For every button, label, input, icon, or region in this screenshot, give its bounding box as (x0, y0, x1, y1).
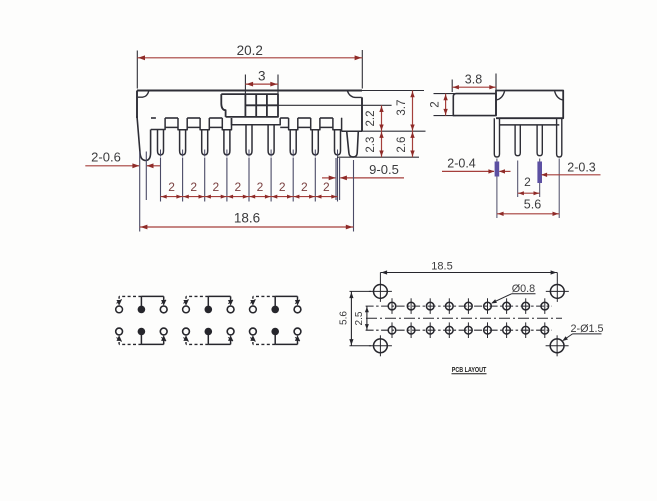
switch group 3 bottom right contact (294, 328, 301, 335)
svg-text:5.6: 5.6 (338, 311, 349, 325)
central block under slider (232, 118, 281, 125)
dimension 2-0.6 extension lines (140, 152, 147, 232)
dimension 5.6 pcb extensions (350, 291, 372, 345)
svg-text:2-0.6: 2-0.6 (91, 150, 121, 165)
dimension 9-0.5 extension lines (336, 158, 340, 200)
switch group 3 bottom wire dashed (250, 335, 275, 344)
svg-text:9-0.5: 9-0.5 (369, 162, 399, 177)
side pin 1 extension (496, 159, 498, 219)
front view top-left corner notch (138, 91, 149, 97)
svg-text:18.6: 18.6 (234, 211, 260, 226)
dimension 2-0.6 (85, 150, 160, 169)
svg-text:3.7: 3.7 (396, 100, 408, 116)
switch group 3 top right contact (294, 306, 301, 313)
pcb row line top (366, 305, 552, 307)
pin 5 (246, 125, 252, 157)
dimension 2 knob extension lines (434, 94, 457, 116)
side pin 4 extension (558, 159, 560, 219)
pin 6 (268, 125, 274, 157)
pcb pad hole bottom 5 (465, 322, 473, 338)
dimension 18.6 (140, 211, 354, 230)
dimension 5.6 side (497, 197, 559, 216)
svg-text:2: 2 (430, 101, 442, 107)
dimension 18.6 extension line right (353, 160, 355, 232)
dimension 5.6 pcb (338, 291, 353, 345)
pcb pad hole bottom 3 (426, 322, 434, 338)
pin centerline extensions (161, 158, 338, 202)
dimension 2 knob (430, 94, 448, 116)
switch group 3 bottom common dot (271, 328, 279, 336)
svg-text:2: 2 (235, 180, 242, 194)
right reference line mid (342, 130, 426, 132)
svg-text:2.3: 2.3 (365, 137, 377, 153)
dimension 2.5 pcb (354, 306, 369, 330)
switch group 3 top wire dashed (250, 296, 275, 305)
svg-text:2-Ø1.5: 2-Ø1.5 (570, 323, 603, 335)
side body corner arc left (497, 91, 505, 100)
dimension 3.7 (396, 91, 415, 132)
switch group 1 top right contact (160, 306, 167, 313)
front view top-right corner notch (347, 91, 361, 97)
pin 8 (312, 130, 318, 157)
svg-text:3.8: 3.8 (465, 73, 482, 87)
switch group 2 top common dot (205, 306, 213, 314)
switch group 3 top common dot (271, 306, 279, 314)
side pin 1 purple bar (495, 162, 500, 177)
pin 7 (290, 130, 296, 157)
teeth bottom edges (165, 126, 333, 128)
pin pitch dimension 2 x8 (161, 180, 338, 199)
pcb mounting hole bottom-left (369, 335, 392, 356)
switch group 2 bottom wire dashed (183, 335, 208, 344)
svg-text:5.6: 5.6 (524, 197, 541, 211)
pcb pad hole top 9 (541, 298, 549, 314)
pcb pad hole bottom 7 (503, 322, 511, 338)
switch group 2 bottom common dot (205, 328, 213, 336)
switch group 1 top left contact (116, 306, 123, 313)
dimension 20.2 extension lines (137, 50, 362, 89)
right reference line top (362, 90, 424, 92)
dimension 3 (245, 68, 278, 86)
pcb pad hole top 4 (446, 298, 454, 314)
side view body (496, 91, 563, 119)
dimension 2.2 (365, 105, 384, 131)
pcb pad hole top 1 (388, 298, 396, 314)
svg-text:18.5: 18.5 (431, 261, 452, 273)
front view body outline (137, 91, 362, 132)
pin pocket cuts (151, 118, 342, 130)
svg-text:2-0.3: 2-0.3 (567, 160, 596, 174)
switch group 1 top wire solid (141, 296, 166, 309)
dimension 18.5 (380, 261, 557, 275)
side view pin 2 (515, 125, 520, 156)
switch group 1 bottom right contact (160, 328, 167, 335)
pcb mounting hole top-left (369, 281, 392, 302)
svg-text:2-0.4: 2-0.4 (447, 156, 476, 170)
slider level reference line (278, 104, 392, 106)
switch group 3 bottom wire solid (275, 332, 300, 345)
right reference line bottom (337, 156, 419, 158)
left mounting leg (137, 116, 151, 160)
svg-text:2: 2 (524, 175, 531, 189)
side pin 3 purple bar (537, 162, 542, 184)
dimension 2.3 (365, 131, 384, 157)
label 2-diameter 1.5 (562, 323, 603, 341)
switch group 2 top left contact (183, 306, 190, 313)
side pin 2 extension (517, 161, 519, 198)
switch group 1 bottom common dot (138, 328, 146, 336)
switch group 1 bottom left contact (116, 328, 123, 335)
svg-text:2: 2 (257, 180, 264, 194)
dimension 2 side (518, 175, 540, 195)
svg-text:2: 2 (301, 180, 308, 194)
svg-text:Ø0.8: Ø0.8 (512, 283, 535, 295)
switch group 2 bottom wire solid (208, 332, 233, 345)
switch group 3 top left contact (250, 306, 257, 313)
dimension 3.8 extension lines (452, 74, 496, 94)
svg-text:2: 2 (279, 180, 286, 194)
body bottom line segments (151, 117, 342, 119)
switch group 1 bottom wire dashed (117, 335, 142, 344)
switch group 1 top wire dashed (117, 296, 142, 305)
label diameter 0.8 (491, 283, 536, 304)
switch group 3 top wire solid (275, 296, 300, 309)
switch group 3 bottom left contact (250, 328, 257, 335)
pcb row line bottom (366, 329, 552, 331)
switch group 2 top wire solid (208, 296, 233, 309)
side view knob (453, 94, 496, 116)
svg-text:PCB LAYOUT: PCB LAYOUT (452, 365, 487, 374)
svg-text:2: 2 (212, 180, 219, 194)
pcb pad hole bottom 8 (522, 322, 530, 338)
pcb mounting hole bottom-right (546, 335, 569, 356)
pcb pad hole bottom 4 (446, 322, 454, 338)
switch group 2 bottom left contact (183, 328, 190, 335)
switch group 2 top right contact (227, 306, 234, 313)
svg-text:2.6: 2.6 (396, 137, 408, 153)
pcb pad hole top 2 (407, 298, 415, 314)
pin 3 (202, 130, 208, 157)
slider knob grid (245, 94, 278, 117)
side body shelf line (500, 124, 560, 126)
slider knob outline (221, 94, 278, 117)
switch group 2 bottom right contact (227, 328, 234, 335)
pin 1 (158, 130, 164, 157)
dimension 20.2 (137, 43, 362, 60)
pcb pad hole top 7 (503, 298, 511, 314)
pcb pad hole bottom 9 (541, 322, 549, 338)
pcb mounting hole dim extensions (380, 273, 557, 282)
right mounting leg (347, 131, 359, 157)
right end drop (342, 118, 362, 131)
svg-text:3: 3 (258, 68, 266, 83)
pin 4 (224, 130, 230, 157)
svg-text:2: 2 (323, 180, 330, 194)
side pin 3 extension (539, 159, 541, 198)
side view pin 1 (494, 118, 499, 157)
dimension 9-0.5 (322, 162, 404, 180)
side view pin 3 (537, 125, 542, 156)
svg-text:2: 2 (190, 180, 197, 194)
pcb layout caption (452, 365, 487, 374)
pcb pad hole bottom 6 (484, 322, 492, 338)
dimension 3 extension lines (245, 75, 278, 94)
switch group 1 bottom wire solid (141, 332, 166, 345)
svg-text:20.2: 20.2 (237, 43, 263, 58)
dimension 2-0.3 (541, 160, 600, 177)
pcb mounting hole top-right (546, 281, 569, 302)
pin 2 (180, 130, 186, 157)
dimension 2.6 (396, 131, 415, 157)
pcb pad hole bottom 1 (388, 322, 396, 338)
pcb pad hole top 3 (426, 298, 434, 314)
dimension 3.8 (452, 73, 496, 90)
pcb centerline (366, 317, 562, 319)
svg-text:2.5: 2.5 (354, 311, 365, 325)
pcb pad hole top 8 (522, 298, 530, 314)
dimension 2-0.4 (442, 156, 511, 173)
switch group 2 top wire dashed (183, 296, 208, 305)
svg-text:2: 2 (168, 180, 175, 194)
pcb pad hole top 6 (484, 298, 492, 314)
svg-text:2.2: 2.2 (365, 111, 377, 127)
pcb pad hole top 5 (465, 298, 473, 314)
pin 9 (335, 130, 341, 157)
side body corner arc right (555, 91, 563, 100)
side view pin 4 (557, 118, 562, 157)
switch group 1 top common dot (138, 306, 146, 314)
pcb pad hole bottom 2 (407, 322, 415, 338)
